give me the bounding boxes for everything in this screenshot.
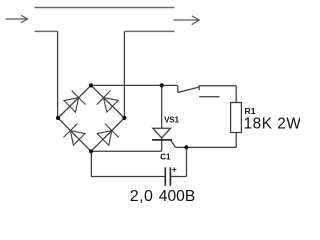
svg-text:2,0: 2,0 [130,188,153,205]
svg-text:18K 2W: 18K 2W [244,115,300,132]
svg-text:400В: 400В [159,188,195,205]
svg-text:VS1: VS1 [164,116,179,125]
svg-text:C1: C1 [160,153,171,162]
